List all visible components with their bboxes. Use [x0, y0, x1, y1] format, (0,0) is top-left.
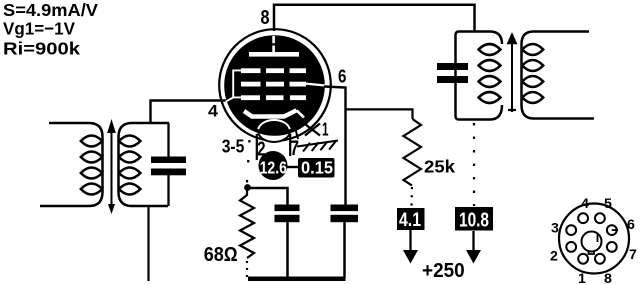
transformer T1 secondary winding [119, 123, 170, 206]
pin 1 lead [297, 115, 307, 125]
svg-text:1: 1 [578, 271, 586, 285]
svg-text:Ri=900k: Ri=900k [3, 38, 80, 58]
svg-text:7: 7 [290, 137, 299, 160]
capacitor Ca bottom lead [286, 222, 289, 278]
dotted lead T2 to 10.8 [473, 123, 475, 206]
pin 7 lead [295, 127, 298, 139]
heater lead left [256, 134, 258, 160]
pin 6 wire from tube [324, 87, 346, 205]
socket pin 7 [607, 242, 617, 252]
tube V1 heater window [258, 120, 290, 142]
socket pin 6 [607, 225, 617, 235]
socket key circle [582, 232, 602, 252]
svg-text:5: 5 [604, 196, 612, 212]
svg-text:3: 3 [551, 221, 559, 237]
tube V1 cathode [244, 110, 297, 116]
tube V1 anode bar [249, 52, 299, 57]
pin 3-5 dotted lead [247, 140, 250, 185]
capacitor Ca plates [275, 205, 300, 212]
tube V1 heater circle [258, 120, 290, 129]
tube V1 grid row 2 [241, 82, 306, 87]
svg-text:25k: 25k [424, 157, 455, 177]
svg-text:68Ω: 68Ω [204, 244, 238, 266]
tube V1 cathode lead to pin1 white [297, 110, 305, 117]
socket pin 3 [566, 225, 576, 235]
transformer T2 secondary winding [522, 32, 595, 119]
tube V1 body disc [224, 35, 325, 136]
socket pin 5 [595, 213, 605, 223]
svg-text:1: 1 [322, 119, 329, 140]
capacitor Cb bottom lead [343, 222, 346, 278]
capacitor Cb plates [331, 205, 359, 212]
resistor 68 ohm [240, 190, 254, 258]
tube V1 grid row 1 [241, 68, 306, 73]
tube V1 screen lead white to pin 6 [306, 84, 325, 86]
resistor 25k [404, 119, 422, 186]
svg-text:8: 8 [261, 7, 270, 29]
tube V1 anode lead white [272, 36, 275, 52]
arrow below 4.1 [409, 230, 411, 252]
chassis ground hatch at pin 7 [297, 141, 338, 152]
wire grid tap vertical [149, 100, 151, 125]
svg-text:8: 8 [604, 271, 612, 285]
transformer T1 primary winding [40, 123, 103, 206]
dotted lead below 68 ohm [246, 261, 248, 277]
socket pin 2 [566, 242, 576, 252]
svg-text:10.8: 10.8 [459, 210, 489, 232]
svg-text:6: 6 [627, 217, 635, 233]
tube V1 envelope [219, 29, 331, 141]
heater current box 0.15 [298, 158, 335, 178]
svg-text:Vg1=−1V: Vg1=−1V [3, 19, 75, 39]
svg-text:12.6: 12.6 [260, 158, 288, 178]
wire grid horizontal to pin 4 [150, 99, 233, 101]
transformer T1 tuning arrow [107, 119, 116, 214]
svg-text:2: 2 [550, 249, 558, 265]
svg-text:4: 4 [208, 103, 219, 121]
svg-text:0.15: 0.15 [301, 158, 333, 178]
svg-text:4: 4 [581, 196, 589, 212]
socket outline [559, 204, 629, 274]
svg-text:S=4.9mA/V: S=4.9mA/V [3, 0, 98, 20]
socket pin 1 [578, 254, 588, 264]
capacitor C2 plates [437, 63, 468, 70]
svg-text:+250: +250 [422, 260, 465, 282]
socket pin 8 [595, 254, 605, 264]
wire anode top bus pin8 to T2 [274, 5, 475, 32]
measurement box 10.8 [455, 207, 493, 231]
socket pin 4 [578, 213, 588, 223]
transformer T2 arrow [507, 32, 518, 112]
wire screen feed to 25k [346, 109, 413, 119]
svg-text:3-5: 3-5 [222, 136, 245, 157]
dotted lead 25k to 4.1 [410, 187, 413, 207]
wire ground stub from tank bottom [147, 206, 149, 281]
ground bus bar [248, 277, 346, 282]
heater voltage meter 12.6 [259, 151, 288, 180]
socket pin labels [550, 196, 637, 285]
tank capacitor C1 plates [151, 157, 186, 164]
svg-text:4.1: 4.1 [399, 210, 421, 231]
link 12.6 to 0.15 [287, 166, 299, 168]
junction node dot [244, 184, 251, 191]
svg-text:7: 7 [629, 247, 637, 263]
heater lead right [289, 134, 291, 156]
tube V1 grid row 3 [241, 95, 306, 100]
svg-text:6: 6 [338, 66, 346, 87]
arrow below 10.8 [472, 231, 474, 252]
tank capacitor C1 leads [167, 123, 169, 157]
transformer T2 primary winding [456, 32, 503, 120]
wire junction to capacitor Ca [248, 188, 288, 205]
no-connection X mark pin 1 [305, 124, 320, 136]
tube V1 grid connector left [226, 70, 243, 101]
measurement box 4.1 [397, 208, 425, 230]
